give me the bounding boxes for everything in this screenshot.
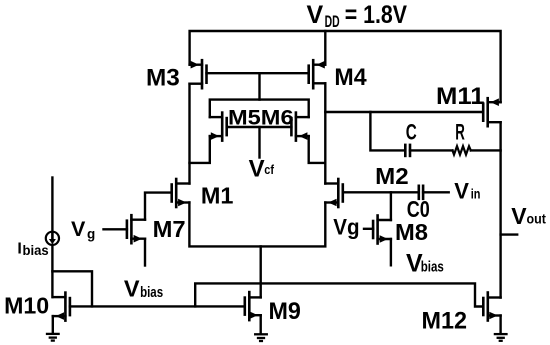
- wire M5 source down to node: [190, 136, 210, 163]
- svg-text:g: g: [87, 227, 95, 242]
- wire M7 gate lead: [104, 228, 127, 230]
- svg-text:M10: M10: [4, 292, 49, 318]
- wire cascode box top: [210, 100, 309, 117]
- wire M2 gate line to C0: [343, 191, 418, 193]
- resistor R: [453, 146, 471, 154]
- svg-text:V: V: [511, 203, 527, 229]
- transistor M2: [325, 179, 343, 207]
- wire Ibias node to M10 gate: [52, 271, 92, 306]
- svg-text:bias: bias: [23, 243, 49, 258]
- wire M4 source to rail: [324, 31, 326, 65]
- svg-text:M12: M12: [422, 308, 468, 335]
- svg-text:out: out: [527, 211, 547, 227]
- wire Vbias line M10 gate to M9 gate: [70, 305, 244, 307]
- transistor M12: [483, 293, 500, 321]
- svg-text:M2: M2: [375, 163, 409, 189]
- label Vin: [454, 179, 480, 204]
- svg-text:= 1.8V: = 1.8V: [345, 1, 408, 29]
- wire M1 gate to M7 drain: [145, 193, 172, 220]
- ground M10: [47, 334, 59, 341]
- wire M3-M4 gate link: [207, 72, 309, 74]
- wire M8 drain tap: [390, 192, 392, 220]
- transistor M5: [210, 113, 227, 141]
- label Vbias right: [406, 250, 444, 278]
- svg-text:M1: M1: [201, 183, 234, 209]
- transistor M1: [172, 179, 190, 207]
- svg-text:Vg: Vg: [333, 215, 359, 240]
- capacitor C: [405, 145, 410, 156]
- wire M9 source down: [260, 315, 262, 333]
- wire Vbias jog over M9 to M12 gate: [195, 283, 483, 306]
- svg-text:bias: bias: [140, 285, 163, 301]
- wire M7 source down: [144, 239, 146, 266]
- wire M8 gate lead: [364, 228, 373, 230]
- svg-text:M3: M3: [146, 64, 180, 91]
- wire first-stage output to M11 gate: [325, 111, 483, 113]
- svg-text:V: V: [307, 1, 324, 29]
- svg-text:C: C: [406, 120, 417, 145]
- label Vcf: [249, 155, 275, 182]
- svg-text:V: V: [249, 155, 265, 182]
- wire tail node M1/M2 sources: [189, 203, 325, 247]
- transistor M8: [373, 216, 391, 244]
- capacitor C0: [419, 186, 449, 199]
- wire M5-M6 gate link: [227, 126, 292, 128]
- wire M6 source down to node: [309, 136, 326, 163]
- svg-text:bias: bias: [421, 259, 444, 275]
- transistor M3: [190, 60, 207, 88]
- ground M9: [255, 334, 267, 341]
- svg-text:M8: M8: [395, 219, 428, 245]
- wire M3 drain vertical: [188, 84, 190, 184]
- transistor M4: [309, 60, 326, 88]
- wire compensation branch left: [370, 112, 404, 150]
- label VDD = 1.8V: [307, 1, 408, 31]
- label Ibias: [17, 241, 48, 258]
- wire output vertical: [499, 122, 501, 297]
- wire gate link to cascode box: [258, 73, 260, 99]
- svg-text:M7: M7: [153, 216, 186, 242]
- svg-text:M5M6: M5M6: [228, 106, 294, 129]
- label Vg left: [71, 217, 95, 242]
- svg-text:DD: DD: [325, 13, 340, 31]
- svg-text:M9: M9: [269, 298, 301, 325]
- svg-text:in: in: [471, 185, 481, 201]
- wire R to output: [471, 149, 501, 151]
- label Vout: [511, 203, 546, 229]
- svg-text:M11: M11: [436, 83, 485, 110]
- transistor M11: [483, 98, 500, 126]
- node Vout tick: [501, 233, 518, 235]
- node VDD supply rail: [190, 31, 501, 102]
- wire M12 source down: [499, 316, 501, 334]
- wire C to R: [410, 149, 453, 151]
- transistor M9: [245, 292, 261, 320]
- transistor M10: [53, 293, 70, 321]
- label Vbias left: [124, 275, 163, 301]
- transistor M6: [291, 113, 308, 141]
- svg-text:V: V: [454, 179, 469, 204]
- current source Ibias: [46, 178, 59, 298]
- svg-text:R: R: [455, 119, 465, 144]
- ground M12: [495, 334, 507, 341]
- svg-text:V: V: [124, 275, 140, 301]
- svg-text:I: I: [17, 241, 21, 258]
- svg-text:cf: cf: [264, 162, 274, 177]
- svg-text:V: V: [71, 217, 86, 241]
- wire M8 source down: [390, 239, 392, 265]
- transistor M7: [127, 215, 145, 243]
- wire tail to M9 drain: [260, 246, 262, 297]
- node Vcf stub: [258, 127, 260, 158]
- wire M10 source down: [52, 316, 54, 333]
- svg-text:M4: M4: [334, 64, 367, 91]
- svg-text:C0: C0: [407, 196, 430, 222]
- wire M4 drain vertical: [324, 83, 326, 183]
